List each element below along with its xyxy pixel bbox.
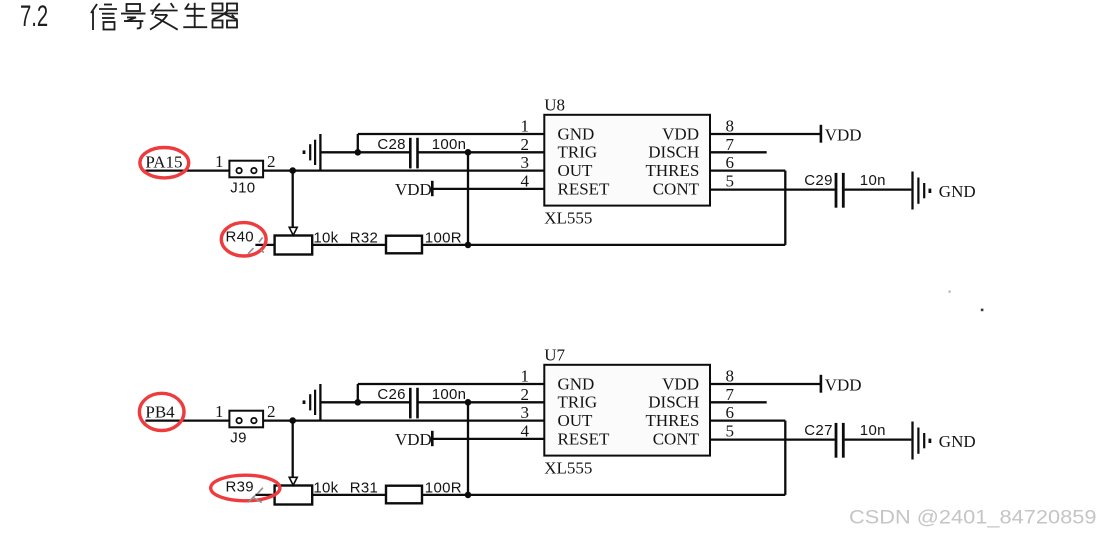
svg-text:GND: GND [939,432,976,451]
svg-text:4: 4 [521,421,530,440]
svg-text:CONT: CONT [653,179,700,198]
svg-text:J10: J10 [230,179,255,196]
svg-text:10k: 10k [313,479,338,496]
svg-text:R32: R32 [350,229,378,246]
svg-text:DISCH: DISCH [648,393,699,412]
svg-text:3: 3 [521,153,530,172]
svg-text:XL555: XL555 [544,208,592,227]
svg-text:7: 7 [726,385,735,404]
svg-text:OUT: OUT [558,161,594,180]
svg-text:CSDN @2401_84720859: CSDN @2401_84720859 [849,508,1097,529]
svg-text:100R: 100R [425,479,462,496]
svg-text:VDD: VDD [395,180,432,199]
svg-text:2: 2 [521,385,530,404]
svg-text:2: 2 [267,402,276,421]
svg-text:1: 1 [215,402,224,421]
svg-text:R39: R39 [226,478,254,495]
svg-text:6: 6 [726,153,735,172]
svg-text:OUT: OUT [558,411,594,430]
svg-text:100n: 100n [432,386,467,403]
svg-text:CONT: CONT [653,429,700,448]
svg-text:C26: C26 [377,386,405,403]
svg-text:VDD: VDD [825,125,862,144]
svg-text:100R: 100R [425,229,462,246]
svg-text:THRES: THRES [645,411,699,430]
svg-text:U7: U7 [544,346,565,365]
svg-text:C28: C28 [377,136,405,153]
svg-text:4: 4 [521,171,530,190]
svg-text:GND: GND [939,182,976,201]
svg-text:7: 7 [726,135,735,154]
svg-text:8: 8 [726,117,735,136]
svg-text:5: 5 [726,421,735,440]
svg-text:TRIG: TRIG [558,143,598,162]
svg-text:1: 1 [215,152,224,171]
svg-text:C29: C29 [804,172,832,189]
svg-text:VDD: VDD [662,374,699,393]
svg-text:8: 8 [726,367,735,386]
svg-text:3: 3 [521,403,530,422]
svg-text:10k: 10k [313,229,338,246]
svg-text:2: 2 [267,152,276,171]
svg-text:GND: GND [558,124,595,143]
svg-text:RESET: RESET [558,179,611,198]
svg-text:GND: GND [558,374,595,393]
svg-text:DISCH: DISCH [648,143,699,162]
svg-text:10n: 10n [860,172,886,189]
svg-text:U8: U8 [544,96,565,115]
svg-text:C27: C27 [804,422,832,439]
svg-text:J9: J9 [230,429,246,446]
svg-text:TRIG: TRIG [558,393,598,412]
svg-text:VDD: VDD [825,375,862,394]
svg-text:100n: 100n [432,136,467,153]
svg-text:5: 5 [726,171,735,190]
svg-text:XL555: XL555 [544,458,592,477]
svg-text:PA15: PA15 [145,153,182,172]
svg-text:PB4: PB4 [145,403,175,422]
svg-text:7.2: 7.2 [20,0,48,33]
svg-text:6: 6 [726,403,735,422]
svg-text:VDD: VDD [395,430,432,449]
svg-text:10n: 10n [860,422,886,439]
svg-text:1: 1 [521,367,530,386]
svg-text:THRES: THRES [645,161,699,180]
svg-text:RESET: RESET [558,429,611,448]
svg-text:2: 2 [521,135,530,154]
svg-text:R40: R40 [226,228,254,245]
svg-text:R31: R31 [350,479,378,496]
svg-text:VDD: VDD [662,124,699,143]
svg-text:1: 1 [521,117,530,136]
